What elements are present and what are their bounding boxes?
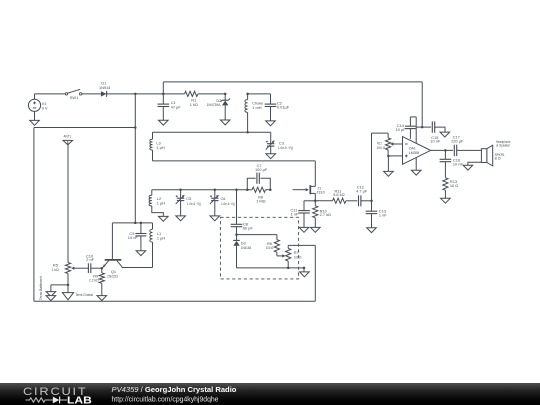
inductor L3 1uH [152, 132, 154, 139]
variable capacitor C6 [214, 188, 217, 191]
wire V1 top to SW1 [34, 94, 36, 99]
ground below R9 [97, 296, 107, 301]
capacitor C17 220uF [453, 145, 455, 156]
wire Q1 collector to L1 [122, 267, 153, 269]
wire to op-amp non-inverting input [388, 155, 402, 157]
wire tank box top edge [153, 131, 271, 133]
potentiometer R5 1k [65, 263, 70, 274]
node R7 bottom [287, 267, 290, 270]
switch SW1 [65, 93, 67, 95]
svg-text:LAB: LAB [67, 395, 92, 405]
node supply rail [421, 126, 424, 129]
node output [444, 149, 447, 152]
node junction on battery rail x=135 [134, 93, 137, 96]
node C8 top [235, 188, 238, 191]
speaker SPKR1 [481, 149, 487, 163]
node osc box left [134, 222, 137, 225]
wire top rail [163, 81, 422, 83]
svg-text:10 nF: 10 nF [128, 235, 139, 240]
ground below op-amp [411, 170, 421, 175]
wire antenna stem [67, 145, 69, 263]
zener diode D2 1N4739A [224, 94, 226, 100]
wire JFET gate stub with arrow [293, 189, 306, 191]
svg-text:1.0e-6 ·V(): 1.0e-6 ·V() [187, 201, 202, 206]
svg-text:47 µF: 47 µF [171, 105, 182, 110]
capacitor C10 2nF [91, 267, 102, 269]
ground below speaker [463, 165, 473, 170]
voltage source V1 [28, 99, 40, 111]
inductor L2 1uH [151, 190, 153, 196]
svg-text:ANT1: ANT1 [64, 134, 72, 139]
ground below C3 [266, 154, 276, 159]
svg-text:100 Ω: 100 Ω [377, 145, 386, 150]
wire dashed-box bottom net [237, 267, 305, 269]
op-amp V- pin to ground [415, 158, 417, 171]
op-amp V+ pin and C14 loop [415, 117, 417, 143]
node ground corner [303, 267, 306, 270]
svg-text:0.01µF: 0.01µF [277, 105, 290, 110]
potentiometer R7 100R [287, 245, 289, 248]
antenna ANT1 [63, 140, 73, 144]
wire speaker return [468, 162, 482, 165]
capacitor C8 60pF [236, 190, 238, 225]
wire osc box top edge [112, 222, 152, 224]
svg-text:8 Ω: 8 Ω [495, 156, 501, 161]
potentiometer R12 100R [387, 133, 389, 138]
wire loop top edge [34, 127, 135, 129]
node D3 top / R6 tap [235, 233, 238, 236]
wire riser to R7 top [288, 244, 315, 246]
ground below C9 [136, 251, 146, 256]
svg-text:1 nF: 1 nF [379, 212, 387, 217]
node R8 block left [246, 188, 249, 191]
wire junction C1/R1 [162, 93, 165, 96]
transistor J1 J310 JFET [309, 185, 311, 194]
resistor R11 5.6k [315, 200, 332, 202]
svg-text:1 µH: 1 µH [157, 201, 165, 206]
wire R12 wiper to op-amp inverting input [394, 143, 403, 145]
ground right of C15 [440, 132, 450, 137]
wire outer loop bottom edge [34, 300, 315, 302]
svg-text:10 Ω: 10 Ω [450, 183, 458, 188]
svg-text:PV4359 / GeorgJohn Crystal Rad: PV4359 / GeorgJohn Crystal Radio [112, 385, 237, 394]
ground below C13 [367, 228, 377, 233]
op-amp OA1 LM358 [403, 137, 431, 165]
ground below L2 [159, 216, 169, 221]
ground below C1 [159, 120, 169, 125]
ground below R10 [311, 227, 321, 232]
inductor L1 1uH [152, 223, 154, 229]
ground below C6 [210, 216, 220, 221]
variable capacitor C3 [270, 132, 272, 143]
resistor R8 1MOhm [252, 187, 265, 192]
dashed box [220, 217, 298, 279]
svg-text:Terra Battment: Terra Battment [38, 276, 43, 301]
svg-text:5.6 kΩ: 5.6 kΩ [333, 192, 344, 197]
svg-text:or Speaker: or Speaker [496, 143, 511, 148]
ground below C2 [266, 121, 276, 126]
svg-text:1.0e-6 ·V(): 1.0e-6 ·V() [278, 145, 294, 150]
node JFET source junction [314, 200, 317, 203]
svg-text:1N914: 1N914 [99, 85, 111, 90]
node loop top [134, 126, 137, 129]
svg-text:4.7 µF: 4.7 µF [356, 188, 368, 193]
variable capacitor C5 [179, 188, 182, 191]
wire tank box bottom edge [153, 160, 316, 162]
ground below D2 [220, 120, 230, 125]
svg-text:100 Ω: 100 Ω [266, 245, 274, 250]
svg-text:Terra Chassi: Terra Chassi [75, 292, 93, 297]
wire R5 bottom to chassis ground [67, 285, 69, 293]
wire C13 node to R12 riser [371, 133, 373, 201]
inductor Choke 1mH [247, 94, 249, 100]
ground below R12 [384, 171, 394, 176]
resistor R1 [163, 93, 184, 95]
capacitor C16 10nF [444, 150, 446, 159]
node Q1 emitter junction [101, 267, 104, 270]
wire R6 wiper arrow into R7 [277, 255, 282, 257]
svg-text:2.2 kΩ: 2.2 kΩ [89, 277, 99, 282]
svg-text:2.7 kΩ: 2.7 kΩ [320, 212, 331, 217]
wire bottom loop to R7 riser [314, 245, 316, 301]
capacitor C14 10uF [405, 125, 416, 127]
node C12 / C13 junction [370, 200, 373, 203]
wire left loop vertical x=135 [134, 94, 136, 223]
transistor Q1 2N2222 [111, 223, 113, 260]
diode D1 1N914 [101, 91, 107, 96]
svg-text:1N4739A: 1N4739A [207, 102, 221, 107]
wire supply rail to C15 [416, 126, 431, 128]
wire tuner row [152, 189, 252, 191]
svg-text:2N2222: 2N2222 [107, 273, 118, 278]
node R12 bottom / op-amp plus [387, 155, 390, 158]
wire R5 bottom left branch [51, 284, 68, 286]
node R5 bottom [67, 284, 70, 287]
svg-text:1N4148: 1N4148 [241, 245, 251, 250]
resistor R6 100R [237, 234, 277, 236]
ground below C5 [176, 216, 186, 221]
node choke to tank [246, 131, 249, 134]
capacitor C9 10nF [140, 223, 142, 234]
ground below C11 [299, 227, 309, 232]
svg-text:9 V: 9 V [42, 106, 48, 111]
svg-text:1.0e-6 ·V(): 1.0e-6 ·V() [221, 201, 236, 206]
diode D3 1N4148 [233, 239, 240, 241]
capacitor C2 0.01uF [248, 93, 271, 95]
svg-text:100 Ω: 100 Ω [294, 255, 302, 260]
node C9 top [140, 222, 143, 225]
capacitor C7 100pF bypass loop [247, 178, 255, 190]
svg-text:2 nF: 2 nF [86, 257, 94, 262]
wire R12 bottom to ground [387, 156, 389, 172]
wire op-amp output [431, 149, 454, 151]
svg-text:1 kΩ: 1 kΩ [190, 102, 198, 107]
svg-text:1 kΩ: 1 kΩ [52, 267, 59, 272]
svg-text:1 µH: 1 µH [156, 145, 164, 150]
resistor R9 2.2k [101, 268, 103, 273]
wire outer loop left edge [33, 128, 35, 302]
svg-text:SW1: SW1 [70, 95, 78, 100]
capacitor C11 1nF [304, 200, 315, 202]
capacitor C12 4.7uF [358, 195, 360, 206]
svg-text:1 MΩ: 1 MΩ [256, 198, 265, 203]
ground below R13 [441, 198, 451, 203]
svg-text:10 nF: 10 nF [453, 161, 464, 166]
resistor R10 2.7k [314, 201, 316, 206]
wire D1 to C1 node [107, 93, 164, 95]
wire SW1 to D1 [82, 93, 101, 95]
resistor R13 10R [443, 178, 448, 191]
node choke top [246, 93, 249, 96]
wire R1 to D2 [224, 93, 227, 96]
svg-text:1 nF: 1 nF [291, 212, 299, 217]
svg-text:1 µH: 1 µH [157, 235, 165, 240]
ground below V1 [30, 120, 40, 125]
svg-text:10 µF: 10 µF [396, 127, 407, 132]
wire C10 to R5 wiper arrow [74, 267, 88, 269]
svg-text:220 µF: 220 µF [451, 138, 464, 143]
svg-text:1 mH: 1 mH [252, 105, 261, 110]
ground Terra Chassi [62, 293, 73, 300]
node R8 block right [269, 188, 272, 191]
svg-text:100 µF: 100 µF [255, 167, 268, 172]
wire to ground in box [303, 268, 305, 272]
double ground symbol [46, 292, 56, 297]
capacitor C15 10nF [431, 121, 433, 132]
svg-text:http://circuitlab.com/cpg4kyhj: http://circuitlab.com/cpg4kyhj9dqhe [112, 396, 219, 403]
capacitor C13 1nF [371, 201, 373, 211]
svg-text:J310: J310 [316, 189, 325, 194]
svg-text:LM358: LM358 [409, 150, 420, 155]
svg-text:60 pF: 60 pF [243, 225, 254, 230]
ground in dashed box [300, 272, 310, 277]
wire V1 bottom lead [34, 111, 36, 120]
capacitor C1 47uF [162, 94, 164, 104]
svg-text:10 nF: 10 nF [430, 138, 441, 143]
